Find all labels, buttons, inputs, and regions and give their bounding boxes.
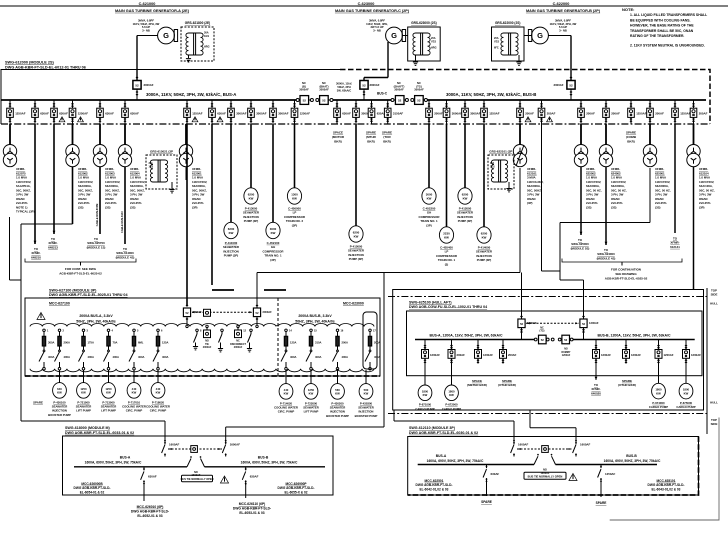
svg-text:MAIN GAS TURBINE GENERATOR-C (: MAIN GAS TURBINE GENERATOR-C (2P) [335, 9, 410, 13]
wire feeder 35 down [34, 124, 37, 244]
bus B label [446, 92, 536, 97]
bold wire segment b [264, 289, 286, 291]
svg-text:FOR CONT. SEE DWG: FOR CONT. SEE DWG [65, 267, 97, 271]
wire to motor x294.5 [294, 124, 296, 188]
feeder breaker bus-B x581 [578, 100, 595, 124]
svg-text:52: 52 [398, 98, 402, 102]
spare othr bkr label b [618, 379, 636, 387]
svg-text:3000AF: 3000AF [470, 111, 481, 115]
svg-text:EL-6054-01 & 02: EL-6054-01 & 02 [80, 491, 105, 495]
svg-text:BUS-C: BUS-C [377, 92, 388, 96]
wire to motor x251 [250, 124, 252, 188]
MCC motor P-722000 label [303, 401, 319, 413]
motor P-672000 [445, 385, 459, 401]
svg-text:PUMP (3P): PUMP (3P) [477, 258, 492, 262]
svg-text:BUS TIE NORMALLY OPEN: BUS TIE NORMALLY OPEN [181, 477, 214, 481]
svg-text:SPARE: SPARE [481, 500, 492, 504]
feeder breaker bus-A x125 [122, 100, 139, 124]
hull boundary top [388, 296, 707, 298]
right bracket text [605, 268, 648, 281]
svg-text:(3S): (3S) [78, 205, 83, 209]
svg-text:KW: KW [354, 234, 359, 238]
transformer XFMR x186 label [192, 167, 207, 209]
svg-text:RATING OF THE TRANSFORMER.: RATING OF THE TRANSFORMER. [630, 34, 684, 38]
GRS-622000 ground [516, 36, 531, 66]
space motor bkr label [332, 131, 345, 144]
wire feeder 650 elbow [560, 168, 650, 280]
MCC-626110 label [233, 502, 271, 515]
transformer XFMR x10 [3, 124, 16, 167]
generator G-C [386, 27, 406, 44]
svg-text:KW: KW [271, 231, 276, 235]
svg-text:1200AF: 1200AF [589, 321, 599, 325]
svg-text:AGB-KBR-FT-SLD-EL-6025-02: AGB-KBR-FT-SLD-EL-6025-02 [59, 271, 102, 275]
svg-text:KW: KW [444, 235, 449, 239]
svg-text:400A: 400A [290, 355, 296, 359]
SWG-625100 feeder A x478 [475, 340, 494, 364]
wire spare A [486, 482, 488, 496]
label TO XFMR-612141 [670, 237, 680, 249]
svg-text:KW: KW [364, 392, 369, 396]
SWG-612110 box bold edges [408, 437, 699, 496]
svg-text:FOR CONTINUATION: FOR CONTINUATION [611, 268, 641, 272]
svg-text:50HZ, 3PH, 3W, 40kA/0s: 50HZ, 3PH, 3W, 40kA/0s [76, 320, 116, 324]
MCC motor P-721000 label [76, 400, 92, 412]
svg-text:200AF: 200AF [508, 353, 517, 357]
MCC motor P-721000 [77, 383, 91, 399]
SWG-625100 bus B [574, 339, 695, 341]
GRS-622101 windings [490, 160, 508, 182]
wire feeder 187 down to MCC [186, 124, 188, 305]
feeder breaker bus-B x429 [426, 100, 443, 124]
svg-text:630AF: 630AF [250, 474, 259, 478]
top border line [0, 5, 728, 7]
motor P-411000 label [223, 241, 240, 258]
feeder breaker bus-B x606 [603, 100, 620, 124]
SWG-618000 box [63, 436, 334, 495]
svg-text:(3): (3) [445, 262, 449, 266]
transformer XFMR x650 [643, 124, 656, 167]
svg-text:200AF: 200AF [457, 353, 466, 357]
svg-text:1600A, 690V, 50HZ, 3PH, 3W, 75: 1600A, 690V, 50HZ, 3PH, 3W, 75kA/C [241, 460, 298, 464]
wire to motor x484 [483, 124, 485, 227]
svg-text:52: 52 [520, 322, 524, 326]
svg-text:200A: 200A [374, 340, 380, 344]
svg-text:6ML: 6ML [138, 340, 144, 344]
svg-text:SEE DRAWING: SEE DRAWING [615, 272, 637, 276]
svg-text:SPARE: SPARE [596, 501, 607, 505]
svg-text:630AF: 630AF [148, 474, 157, 478]
svg-text:3000A, 11KV, 50HZ, 3PH, 3W, 63: 3000A, 11KV, 50HZ, 3PH, 3W, 63kA/C, BUS-… [146, 92, 236, 97]
svg-text:KW: KW [156, 391, 161, 395]
SWG-618000 interlock [168, 448, 222, 450]
svg-text:400A: 400A [138, 355, 144, 359]
svg-text:125A: 125A [162, 340, 168, 344]
svg-text:DWG AGB-KBR-FT-SLD-: DWG AGB-KBR-FT-SLD- [233, 507, 271, 511]
feeder breaker bus-B x484 [481, 100, 500, 124]
svg-text:HRG: HRG [431, 47, 437, 50]
wire feeder 212 down [211, 124, 213, 285]
svg-text:CIRC. PUMP: CIRC. PUMP [150, 409, 167, 413]
switchgear box bottom [1, 123, 710, 125]
svg-text:KW: KW [229, 231, 234, 235]
svg-text:70A: 70A [113, 340, 118, 344]
MCC feeder 5 [129, 329, 144, 370]
svg-text:KW: KW [684, 391, 689, 395]
svg-text:630AF: 630AF [342, 111, 351, 115]
svg-text:MCC-626000B: MCC-626000B [81, 482, 103, 486]
svg-text:200AF: 200AF [547, 111, 556, 115]
feeder breaker bus-B x693.5 [690, 100, 707, 124]
svg-text:630AF: 630AF [491, 472, 500, 476]
GRS-615021 ground [169, 182, 174, 193]
svg-text:300A: 300A [48, 340, 54, 344]
wire feeder 541 down [542, 124, 561, 271]
svg-text:KW: KW [292, 196, 297, 200]
svg-text:1600AF: 1600AF [580, 443, 591, 447]
SWG-618000 incomer B [222, 439, 240, 457]
svg-text:3000A, 11KV, 50HZ, 3PH, 3W, 63: 3000A, 11KV, 50HZ, 3PH, 3W, 63kA/C, BUS-… [446, 92, 536, 97]
svg-text:52: 52 [541, 338, 545, 342]
svg-text:TRANSFORMER SHALL BE 50C, ONAN: TRANSFORMER SHALL BE 50C, ONAN [630, 29, 694, 33]
svg-text:MCC-627100: MCC-627100 [49, 302, 70, 306]
wire elbow xfmr 72 [21, 167, 73, 224]
svg-text:BUS-A, 1200A, 11kV, 50HZ, 3PH,: BUS-A, 1200A, 11kV, 50HZ, 3PH, 3W, 63kA/… [429, 333, 502, 337]
svg-text:1250AF: 1250AF [192, 111, 203, 115]
svg-text:HRG: HRG [204, 46, 210, 49]
transformer XFMR x606 [599, 124, 612, 167]
SWG-625100 inner box [407, 311, 703, 376]
svg-text:1200AF: 1200AF [601, 353, 611, 357]
svg-text:50HZ, 3PH: 50HZ, 3PH [337, 85, 350, 89]
svg-text:BUS-B: BUS-B [258, 455, 269, 459]
svg-text:1250AF: 1250AF [300, 111, 311, 115]
svg-text:640020: 640020 [591, 391, 601, 395]
wire xfmr 606 down [605, 167, 608, 245]
svg-text:(COMB: (COMB [626, 135, 637, 139]
svg-text:3000AF: 3000AF [414, 88, 424, 92]
svg-text:DWG AGB-KBR-FT-SLD-EL-6012-01: DWG AGB-KBR-FT-SLD-EL-6012-01 THRU 06 [5, 65, 86, 69]
SWG-625100 feeder A x503 [500, 340, 517, 364]
feeder breaker bus-B x446.5 [443, 100, 462, 124]
svg-text:KW: KW [449, 393, 454, 397]
svg-text:1600A, 690V, 50HZ, 3PH, 3W, 75: 1600A, 690V, 50HZ, 3PH, 3W, 75kA/C [427, 459, 484, 463]
right bracket [562, 259, 682, 266]
MCC tie cell [203, 325, 212, 349]
svg-text:SPARE: SPARE [622, 379, 632, 383]
MCC motor P-713000 label [101, 400, 117, 412]
MCC box bottom bold [25, 375, 380, 377]
feeder breaker bus-B x631 [628, 100, 647, 124]
frame line bottom right [610, 418, 719, 521]
svg-text:(3S): (3S) [586, 205, 591, 209]
motor C-452100 label [263, 241, 285, 262]
GRS-621800 labels [204, 32, 210, 49]
svg-text:LIFT PUMP: LIFT PUMP [76, 409, 91, 413]
generator G-A [158, 27, 178, 44]
svg-text:AGB-KBR-FT-SLD-EL-6025-02: AGB-KBR-FT-SLD-EL-6025-02 [605, 276, 648, 280]
generator G-A rating text [133, 19, 160, 33]
svg-text:3W, 63kA/C: 3W, 63kA/C [337, 89, 352, 93]
svg-text:1. ALL LIQUID FILLED TRANSFORM: 1. ALL LIQUID FILLED TRANSFORMERS SHALL [630, 13, 707, 17]
MCC earth cell 3 [243, 329, 252, 352]
SWG-625100 feeder A x425 [422, 340, 441, 364]
feeder breaker bus-B x675 [672, 100, 691, 124]
svg-text:SWG-612110 (MODULE 3P): SWG-612110 (MODULE 3P) [409, 426, 456, 430]
svg-text:LIFT PUMP: LIFT PUMP [101, 409, 116, 413]
MCC motor P-713000 [102, 383, 116, 399]
SWG-612110 feeder B [598, 465, 616, 483]
svg-text:GRS-623000 (2S): GRS-623000 (2S) [411, 21, 437, 25]
motor C-452200 [422, 188, 436, 204]
wire to XFMR-640020 [595, 363, 598, 380]
svg-text:SPARE: SPARE [366, 131, 376, 135]
MCC earth cell 2 [218, 329, 223, 352]
svg-text:(TG): (TG) [540, 330, 545, 333]
SWG-625100 feeder B x686 [683, 340, 702, 364]
MCC-622501 label [416, 479, 453, 492]
svg-text:(3P): (3P) [192, 205, 197, 209]
MCC motor P-430100 [53, 383, 67, 399]
svg-text:CARGO PUMP: CARGO PUMP [415, 407, 434, 411]
MCC motor P-717010 [127, 383, 141, 399]
svg-text:(3S): (3S) [611, 205, 616, 209]
label TO SWG-625000 [571, 238, 590, 250]
MCC motor P-722000 [304, 384, 318, 400]
feed wire SWG-612110 B [530, 410, 576, 439]
svg-text:G: G [163, 31, 169, 40]
transformer XFMR x10 label [16, 167, 35, 214]
transformer XFMR x72.5 label [78, 167, 93, 209]
svg-text:TYPICAL (3P): TYPICAL (3P) [16, 210, 35, 214]
svg-text:52: 52 [417, 98, 421, 102]
svg-text:1250AF: 1250AF [489, 111, 500, 115]
bus tie coupler e [404, 99, 415, 102]
spare comb bkr label [626, 131, 637, 144]
SWG-612110 warning triangle [569, 474, 577, 481]
svg-text:BUS-B: BUS-B [626, 454, 637, 458]
svg-text:BKR): BKR) [627, 139, 635, 143]
motor P-674000 [652, 383, 666, 399]
svg-text:648213: 648213 [48, 245, 58, 249]
MCC feeder 3 [79, 329, 94, 370]
svg-text:KW: KW [57, 391, 62, 395]
svg-text:630AF: 630AF [105, 111, 114, 115]
svg-text:DWG AGB-KBR-FT-SLD-EL-6030-01: DWG AGB-KBR-FT-SLD-EL-6030-01 & 02 [409, 431, 478, 435]
SWG-625100 interlock [526, 322, 579, 324]
svg-text:DWG AGB-CGW-FU-SLD-EL-1002-01: DWG AGB-CGW-FU-SLD-EL-1002-01 THRU 04 [409, 305, 487, 309]
svg-text:BUS-A: BUS-A [436, 454, 447, 458]
svg-text:KW: KW [656, 391, 661, 395]
label TO SWG-614000 [116, 247, 135, 259]
svg-text:52: 52 [303, 98, 307, 102]
svg-text:52: 52 [569, 84, 573, 88]
space meter bkr label [467, 379, 487, 387]
motor P-414000 label [476, 245, 493, 262]
bus C [333, 92, 391, 101]
svg-text:1250AF: 1250AF [605, 472, 616, 476]
SWG-612110 incomer A [511, 439, 529, 457]
svg-text:400A: 400A [64, 355, 70, 359]
svg-text:DWG AGB-KBR-FT-SLD-: DWG AGB-KBR-FT-SLD- [416, 483, 453, 487]
transformer XFMR x650 label [655, 167, 671, 209]
wire to motor x446.5 [446, 124, 448, 227]
svg-text:(MTHR: (MTHR [366, 135, 376, 139]
motor P-412000 label [457, 206, 474, 223]
SWG-625100 bus A [415, 339, 534, 341]
svg-text:NOTE:: NOTE: [622, 7, 634, 12]
svg-text:3000AF: 3000AF [319, 88, 329, 92]
svg-text:200AF: 200AF [655, 111, 664, 115]
svg-text:CARGO PUMP: CARGO PUMP [649, 405, 668, 409]
breaker 52G-C [360, 81, 380, 101]
svg-text:3~ NB: 3~ NB [142, 28, 150, 32]
feeder breaker bus-A x72.5 [69, 100, 88, 124]
svg-text:200AF: 200AF [434, 111, 443, 115]
wire xfmr 693 down [693, 167, 695, 290]
svg-text:200A: 200A [342, 340, 348, 344]
svg-text:1GS: 1GS [490, 166, 495, 168]
wire to motor x356 [355, 124, 357, 226]
svg-text:KW: KW [106, 391, 111, 395]
svg-text:CIRC. PUMP: CIRC. PUMP [278, 410, 295, 414]
svg-text:1200AF: 1200AF [691, 353, 701, 357]
svg-text:1200AF: 1200AF [430, 353, 440, 357]
wire MCC motor x311 [310, 370, 312, 384]
SWG-618000 bus A label [85, 455, 142, 464]
svg-text:DWG AGB-KBR-FT-SLD-: DWG AGB-KBR-FT-SLD- [74, 486, 111, 490]
SWG-618000 interlock box [191, 446, 198, 453]
svg-text:MCC-626110 (6P): MCC-626110 (6P) [239, 502, 266, 506]
svg-text:(MODULE 1S): (MODULE 1S) [87, 245, 106, 249]
label TO XFMR-640020 [591, 383, 601, 395]
feeder breaker bus-B x541.5 [538, 100, 555, 124]
spare mthr bkr label [366, 131, 377, 144]
svg-text:DWG AGB-KBR-FT-SLD-: DWG AGB-KBR-FT-SLD- [648, 483, 685, 487]
label TO SWG-624000 [597, 248, 616, 260]
svg-text:CARGO PUMP: CARGO PUMP [442, 407, 461, 411]
SWG-612110 box [408, 437, 699, 496]
svg-text:1250AF: 1250AF [78, 111, 89, 115]
svg-text:DWG AGB-KBR-FT-SLD-EL-6033-01: DWG AGB-KBR-FT-SLD-EL-6033-01 & 02 [65, 431, 134, 435]
svg-text:SIDE: SIDE [711, 422, 718, 426]
svg-text:SIDE: SIDE [711, 293, 718, 297]
SWG-612110 interlock box [542, 446, 549, 453]
SWG-625100 bus A label [429, 333, 502, 337]
notes text [622, 7, 707, 48]
spare label B [596, 501, 607, 505]
svg-text:1250AF: 1250AF [636, 111, 647, 115]
SWG-625100 tie breaker 1 [534, 326, 546, 344]
svg-text:CARGO PUMP: CARGO PUMP [676, 405, 695, 409]
MCC motor P-430200 [331, 384, 345, 400]
motor C-452100 [266, 222, 280, 238]
svg-text:BUS-A: BUS-A [120, 455, 131, 459]
bus tie breaker 1 [299, 81, 309, 104]
svg-text:1250AF: 1250AF [15, 111, 26, 115]
svg-text:EL-6055-X & 02: EL-6055-X & 02 [284, 491, 307, 495]
svg-text:(MODULE 4S): (MODULE 4S) [116, 255, 135, 259]
switchgear box solid part [1, 70, 340, 125]
spare othr bkr label a [498, 379, 516, 387]
spare label A [481, 500, 492, 504]
wire MCC motor x286 [285, 370, 287, 384]
SWG-625100 outer box [393, 290, 704, 411]
svg-text:310A: 310A [315, 340, 321, 344]
wire xfmr10 to swg618000 [10, 217, 166, 439]
wire xfmr612161 elbow [226, 168, 520, 439]
MCC motor P-714020 label [274, 401, 298, 413]
svg-text:(3S): (3S) [655, 205, 660, 209]
MCC bus B scallop top [278, 324, 374, 327]
SWG-612110 bus B [556, 464, 658, 466]
svg-text:SPARE: SPARE [626, 131, 636, 135]
MCC-623000 label [343, 302, 364, 306]
feeder breaker bus-C x337 [334, 100, 351, 124]
svg-text:EL-6042-01,02 & 03: EL-6042-01,02 & 03 [420, 488, 449, 492]
svg-text:1200AF: 1200AF [664, 353, 674, 357]
svg-text:6FC: 6FC [494, 47, 499, 50]
hull label 2 [710, 400, 718, 404]
feeder breaker bus-B x465 [462, 100, 481, 124]
SWG-625100 bus B label [597, 333, 670, 337]
generator G-C title [335, 2, 410, 13]
wire spare B [600, 482, 602, 497]
SWG-618000 title [65, 426, 134, 435]
svg-text:3000AF: 3000AF [452, 111, 463, 115]
svg-text:SPACE: SPACE [472, 379, 482, 383]
svg-text:EL-6053-01 & 03: EL-6053-01 & 03 [239, 511, 264, 515]
feeder breaker bus-C x387.7 [384, 100, 403, 124]
transformer XFMR x186 [179, 124, 192, 167]
svg-text:1200AF: 1200AF [631, 353, 641, 357]
wire MCC motor x134 [133, 370, 135, 383]
MCC motor P-430300 label [355, 401, 378, 418]
svg-text:200AF: 200AF [586, 111, 595, 115]
generator G-B title [526, 2, 601, 13]
transformer XFMR x581 label [586, 167, 602, 209]
svg-text:200AF: 200AF [699, 111, 708, 115]
svg-text:2000A BUS-B, 3.3kV: 2000A BUS-B, 3.3kV [298, 314, 332, 318]
svg-text:KW: KW [427, 196, 432, 200]
MCC feeder 1 [39, 329, 54, 370]
svg-text:KW: KW [81, 391, 86, 395]
svg-text:PUMP (3P): PUMP (3P) [244, 219, 259, 223]
svg-text:175A: 175A [88, 340, 94, 344]
svg-text:1600AF: 1600AF [169, 443, 180, 447]
MCC enclosed feeder cell [363, 312, 380, 370]
svg-text:SWG-625100 (HULL AFT): SWG-625100 (HULL AFT) [409, 300, 452, 304]
SWG-625100 incomer A [518, 315, 537, 339]
transformer box GRS-623000 [408, 21, 441, 61]
MCC-626000 label [74, 482, 111, 495]
wire cargo pump P-674000 [658, 363, 660, 383]
svg-text:(MODULE 4S): (MODULE 4S) [597, 256, 616, 260]
wire to motor x465 [464, 124, 466, 188]
svg-text:3000AF: 3000AF [256, 111, 267, 115]
generator G-A title [115, 2, 190, 13]
motor P-671000 [418, 385, 432, 401]
svg-text:(MODULE 5S): (MODULE 5S) [571, 246, 590, 250]
svg-text:2000AF: 2000AF [234, 346, 243, 349]
SWG-625100 feeder A x451.5 [448, 340, 465, 364]
svg-text:GRS-622101 (3P: GRS-622101 (3P [489, 150, 512, 154]
label TO XFMR-648210 [31, 247, 41, 259]
svg-text:SPARE: SPARE [382, 131, 392, 135]
motor P-674000 label [649, 401, 668, 409]
transformer XFMR x72.5 [66, 124, 79, 167]
MCC incomer A breaker [183, 304, 202, 327]
